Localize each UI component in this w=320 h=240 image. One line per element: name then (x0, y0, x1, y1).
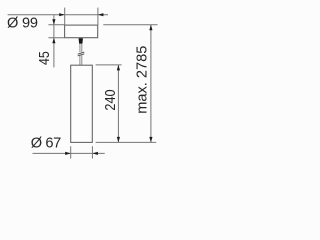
shared bottom extension line (96, 141, 157, 143)
dimension Ø99 left arrow (59, 13, 64, 16)
dimension Ø67 left arrow (65, 152, 71, 155)
cable (80, 44, 82, 66)
dimension Ø99 line (8, 14, 108, 16)
svg-text:Ø 67: Ø 67 (31, 136, 61, 152)
svg-text:Ø 99: Ø 99 (7, 16, 38, 32)
dimension 240 top extension line (96, 64, 122, 66)
dimension max2785 bottom arrow (149, 137, 152, 143)
dimension 240 bottom arrow (117, 137, 120, 143)
dimension Ø67 line (33, 152, 105, 154)
dimension 240 line (117, 65, 119, 142)
dimension Ø99 right extension tick (97, 8, 99, 26)
dimension Ø67 right extension tick (91, 146, 93, 158)
cable break marks (78, 52, 85, 56)
dimension 45 lower arrow (52, 38, 55, 44)
dimension max2785 top extension line (103, 24, 157, 26)
pendant cylinder (71, 65, 93, 142)
svg-text:45: 45 (36, 51, 52, 65)
dimension Ø67 right arrow (92, 152, 98, 155)
dimension max2785 line (150, 25, 152, 143)
dimension 45 middle segment (53, 25, 55, 38)
dimension Ø67 left extension tick (70, 146, 72, 158)
svg-text:max. 2785: max. 2785 (135, 46, 151, 114)
dimension 45 top extension line (48, 24, 64, 26)
dimension Ø99 right arrow (98, 13, 104, 16)
svg-text:240: 240 (102, 89, 118, 111)
canopy (65, 25, 98, 38)
dimension 45 upper arrow (52, 19, 55, 25)
power connector (79, 38, 83, 43)
dimension 45 lower shaft (53, 38, 55, 68)
dimension Ø99 left extension tick (64, 8, 66, 26)
dimension 240 top arrow (117, 65, 120, 71)
dimension max2785 top arrow (149, 25, 152, 31)
dimension 45 bottom extension line (48, 37, 64, 39)
dimension 45 upper shaft (53, 15, 55, 24)
